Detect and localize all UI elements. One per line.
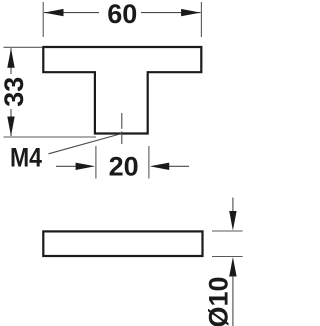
dimension 20: left arrowhead pointing right: [76, 163, 96, 170]
dimension 33: line lower segment: [10, 109, 12, 136]
dimension d10: lower line: [232, 276, 234, 326]
dimension 33: top arrowhead: [7, 48, 14, 68]
dimension 60: left arrowhead: [44, 9, 64, 16]
dimension 60: line left segment: [44, 12, 99, 14]
dimension 33: line upper segment: [10, 48, 12, 74]
svg-text:Ø10: Ø10: [204, 276, 234, 326]
svg-text:60: 60: [107, 0, 137, 29]
svg-text:33: 33: [0, 77, 29, 107]
svg-text:M4: M4: [10, 142, 42, 172]
dimension d10: top extension line: [212, 230, 243, 232]
dimension 60: line right segment: [141, 12, 201, 14]
dimension 33: bottom arrowhead: [7, 117, 14, 137]
dimension 60: right extension tick: [200, 2, 202, 37]
dimension 33: top extension line: [4, 46, 43, 48]
dimension 33: bottom extension line: [4, 136, 97, 138]
dimension 20: right arrow line: [169, 165, 189, 167]
knob front view outline (T-shape): [43, 47, 201, 134]
dimension 60: left extension tick: [42, 2, 44, 37]
stem center line lower segment: [121, 131, 123, 144]
dimension d10: lower arrowhead pointing up: [229, 257, 236, 277]
stem center line upper segment: [121, 113, 123, 129]
dimension 20: left extension tick: [95, 146, 97, 179]
knob side view outline (bar): [43, 231, 202, 256]
dimension 20: right arrowhead pointing left: [150, 163, 170, 170]
M4 leader line: [49, 134, 122, 154]
dimension d10: upper arrowhead pointing down: [229, 211, 236, 231]
svg-text:20: 20: [109, 152, 139, 182]
dimension 20: right extension tick: [148, 146, 150, 179]
dimension 20: left arrow line: [56, 165, 76, 167]
dimension 60: right arrowhead: [181, 9, 201, 16]
dimension d10: bottom extension line: [212, 256, 243, 258]
dimension d10: upper line: [232, 198, 234, 214]
